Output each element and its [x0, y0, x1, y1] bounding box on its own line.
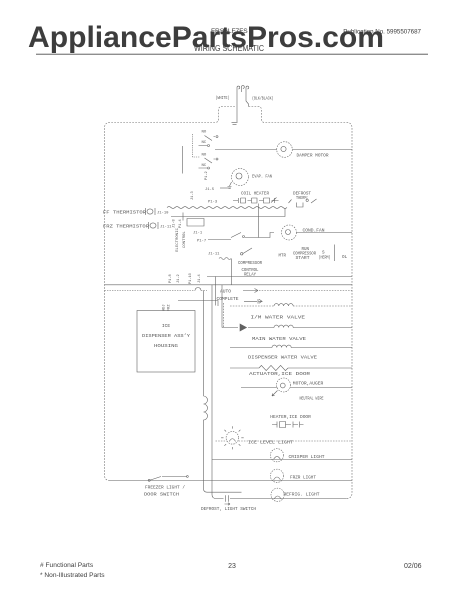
dashed arrow connector	[243, 289, 258, 293]
vertical feeder wire D	[221, 285, 223, 328]
svg-text:CONTROL: CONTROL	[183, 231, 187, 248]
wire auger motor row	[241, 387, 352, 389]
svg-text:FF THERMISTOR: FF THERMISTOR	[103, 210, 146, 216]
wire bus main	[105, 284, 353, 286]
svg-text:WIRING SCHEMATIC: WIRING SCHEMATIC	[194, 44, 264, 53]
ice dispenser housing box	[137, 311, 195, 373]
svg-text:Publication No. 5995507687: Publication No. 5995507687	[343, 29, 421, 36]
wire damper motor to right border	[293, 149, 353, 151]
svg-text:02/06: 02/06	[404, 563, 422, 570]
solenoid coil dispenser valve	[272, 345, 291, 347]
connector arrow to dispenser	[244, 299, 262, 304]
power plug prongs	[237, 86, 249, 92]
svg-text:EVAP. FAN: EVAP. FAN	[252, 174, 272, 180]
svg-text:ACTUATOR,ICE DOOR: ACTUATOR,ICE DOOR	[249, 371, 310, 377]
svg-text:MTR: MTR	[279, 254, 287, 259]
ice door heater element symbols	[272, 422, 304, 428]
svg-text:HEATER,ICE DOOR: HEATER,ICE DOOR	[270, 414, 311, 420]
svg-text:NC: NC	[202, 141, 207, 145]
wire crisper light row	[212, 459, 352, 461]
wire actuator row	[230, 367, 352, 369]
refrig door switch symbol	[225, 495, 231, 505]
svg-text:(WHITE): (WHITE)	[216, 95, 230, 101]
svg-text:P1-2: P1-2	[205, 171, 209, 180]
pin wire P1-7 to defrost switch	[208, 239, 231, 241]
control board torn edge (wavy)	[167, 207, 287, 209]
svg-text:J1-4: J1-4	[198, 274, 202, 283]
wire into dispenser	[178, 301, 218, 307]
ground connection to cabinet	[232, 123, 238, 125]
pin wire J1-5	[220, 187, 231, 189]
svg-text:P1-7: P1-7	[197, 240, 206, 244]
cabinet outline border with top notch	[105, 107, 353, 499]
connector tick	[182, 213, 184, 221]
defrost thermostat symbol	[289, 199, 317, 207]
dispenser lever arrow	[240, 324, 247, 331]
vertical feeder wire A	[204, 291, 242, 493]
svg-text:(HERM): (HERM)	[319, 256, 331, 261]
wire to damper motor	[215, 149, 277, 151]
svg-text:J1-8: J1-8	[173, 219, 177, 228]
actuator resistive element	[259, 365, 288, 370]
defrost relay switch	[231, 233, 274, 238]
wire dashed to right border	[259, 290, 352, 292]
wire J1-11 down to bus	[231, 259, 233, 285]
wire icemaker water valve row	[223, 303, 274, 328]
FF thermistor symbol	[146, 208, 156, 215]
switch S2 blade (lower)	[205, 158, 219, 163]
evaporator fan motor (dashed circle)	[232, 169, 249, 186]
svg-text:J1-5: J1-5	[205, 188, 215, 192]
refrigerator light lamp	[271, 488, 284, 501]
svg-text:P1-4: P1-4	[179, 219, 183, 228]
svg-text:OL: OL	[342, 255, 348, 260]
thermal cutout wavy wire	[219, 258, 231, 260]
svg-text:FRZ THERMISTOR: FRZ THERMISTOR	[103, 224, 149, 230]
switch S1 NC contact line	[199, 145, 210, 147]
svg-text:RELAY: RELAY	[244, 273, 256, 278]
svg-text:FRZ: FRZ	[168, 304, 172, 311]
power plug body line	[237, 92, 249, 122]
svg-text:J1-11: J1-11	[160, 226, 172, 230]
svg-text:COMPRESSOR: COMPRESSOR	[238, 261, 262, 266]
wire bus upper (hot)	[207, 276, 352, 278]
svg-text:THERM:: THERM:	[296, 195, 309, 201]
svg-text:NC: NC	[202, 164, 207, 168]
wire freezer light row (bottom left)	[110, 477, 352, 481]
svg-text:ICE LEVEL LIGHT: ICE LEVEL LIGHT	[248, 440, 293, 446]
svg-text:J1-2: J1-2	[177, 274, 181, 283]
svg-text:NO: NO	[202, 131, 207, 135]
svg-text:ADJ: ADJ	[163, 305, 167, 311]
svg-text:COMPLETE: COMPLETE	[217, 297, 239, 302]
connector block	[187, 219, 204, 227]
svg-text:NO: NO	[202, 154, 207, 158]
FRZ thermistor symbol	[149, 222, 159, 229]
svg-text:MOTOR,AUGER: MOTOR,AUGER	[293, 381, 324, 387]
svg-text:DOOR SWITCH: DOOR SWITCH	[144, 492, 179, 498]
svg-text:FRS6LF7FS: FRS6LF7FS	[211, 28, 248, 35]
solenoid coil main valve	[274, 325, 293, 327]
freezer light door switch blade	[148, 476, 188, 482]
vertical feeder wire B	[212, 285, 216, 499]
freezer light lamp	[270, 469, 283, 482]
wire cond fan to right border	[297, 232, 353, 234]
svg-text:J1-10: J1-10	[157, 212, 169, 216]
svg-text:CRISPER LIGHT: CRISPER LIGHT	[289, 454, 325, 460]
auger motor circle	[277, 378, 291, 392]
mechanical link between switches (dashed)	[193, 134, 201, 157]
svg-text:J1-11: J1-11	[208, 253, 220, 257]
wire ice level light row	[216, 440, 353, 442]
svg-text:START: START	[296, 256, 310, 261]
vertical feeder wire C	[215, 277, 217, 306]
svg-text:I/M WATER VALVE: I/M WATER VALVE	[251, 315, 306, 321]
svg-text:REFRIG. LIGHT: REFRIG. LIGHT	[284, 491, 320, 497]
header rule	[36, 53, 428, 55]
crisper light lamp	[270, 449, 283, 462]
ice level light lamp with rays	[226, 432, 239, 445]
defrost heater elements row	[233, 198, 279, 204]
svg-text:ICE: ICE	[162, 323, 171, 329]
wire hop loop	[195, 288, 201, 291]
svg-text:DISPENSER ASS’Y: DISPENSER ASS’Y	[142, 333, 190, 339]
wire heater row to relay	[257, 204, 259, 238]
wire refrig light row	[216, 498, 347, 500]
svg-text:FRZR LIGHT: FRZR LIGHT	[290, 475, 316, 481]
wire dispenser water valve row	[230, 347, 352, 349]
switch S1 blade (upper)	[205, 136, 219, 141]
svg-text:P1-8: P1-8	[169, 274, 173, 283]
svg-text:ELECTRONIC: ELECTRONIC	[176, 227, 180, 252]
damper motor M1 (dashed circle)	[277, 142, 293, 158]
svg-text:DEFROST, LIGHT SWITCH: DEFROST, LIGHT SWITCH	[201, 506, 256, 512]
solenoid coil icemaker valve	[274, 304, 293, 306]
wire left dashed run	[105, 290, 208, 292]
svg-text:23: 23	[228, 563, 236, 570]
svg-text:# Functional Parts: # Functional Parts	[40, 562, 94, 569]
svg-text:HOUSING: HOUSING	[154, 343, 178, 349]
svg-text:DAMPER MOTOR: DAMPER MOTOR	[297, 153, 329, 159]
svg-text:(BLK/BLACK): (BLK/BLACK)	[252, 96, 274, 102]
svg-text:* Non-Illustrated Parts: * Non-Illustrated Parts	[40, 572, 105, 579]
ground symbol at evap fan	[228, 182, 232, 188]
compressor control relay coil switch	[241, 248, 253, 255]
svg-text:DISPENSER WATER VALVE: DISPENSER WATER VALVE	[248, 355, 317, 361]
svg-text:FREEZER LIGHT /: FREEZER LIGHT /	[145, 485, 185, 491]
svg-text:P1-10: P1-10	[189, 273, 193, 284]
svg-text:COIL HEATER: COIL HEATER	[241, 191, 269, 197]
svg-text:NEUTRAL WIRE: NEUTRAL WIRE	[300, 395, 324, 401]
svg-text:P1-3: P1-3	[208, 201, 218, 205]
wire main water valve row	[222, 327, 352, 329]
condenser fan motor (dashed circle)	[282, 225, 297, 240]
svg-text:J1-1: J1-1	[193, 232, 203, 236]
wire below board edge	[171, 208, 285, 217]
svg-text:MAIN WATER VALVE: MAIN WATER VALVE	[252, 336, 306, 342]
switch S2 NC contact line	[199, 167, 210, 169]
compressor internal line	[333, 245, 335, 262]
wire from switch area down	[182, 146, 184, 174]
svg-text:J1-3: J1-3	[191, 191, 195, 200]
